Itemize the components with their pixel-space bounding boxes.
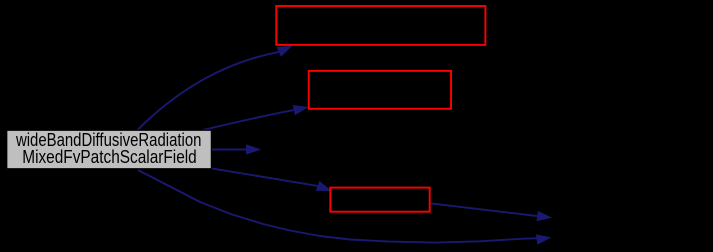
edge: current node to third red box (212, 168, 332, 191)
red node box top (276, 6, 485, 45)
red node box lower (330, 188, 429, 212)
edge: current node to hidden middle node (212, 144, 261, 155)
edge: current node to top red box (137, 46, 293, 131)
edge: third red box to hidden right node (431, 203, 552, 221)
edge: current node bottom long curve to hidden right node (138, 170, 552, 245)
red node box middle (309, 71, 451, 109)
edge: current node to second red box (203, 105, 309, 130)
svg-text:MixedFvPatchScalarField: MixedFvPatchScalarField (22, 147, 197, 167)
current node grey box (7, 130, 212, 169)
